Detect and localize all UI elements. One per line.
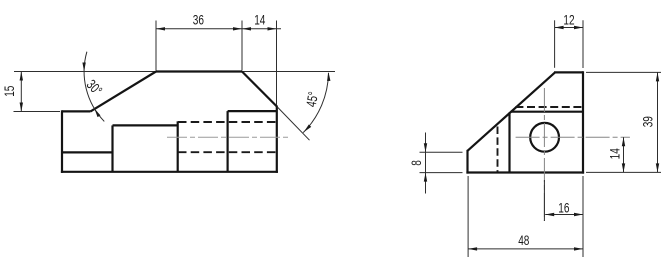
svg-text:15: 15 <box>1 85 17 96</box>
svg-text:14: 14 <box>607 148 623 159</box>
svg-text:16: 16 <box>558 200 569 216</box>
svg-text:48: 48 <box>518 232 529 248</box>
svg-text:39: 39 <box>640 116 656 127</box>
svg-text:36: 36 <box>193 12 204 28</box>
svg-text:45°: 45° <box>303 90 321 108</box>
svg-text:14: 14 <box>254 12 265 28</box>
svg-text:12: 12 <box>563 12 574 28</box>
svg-text:8: 8 <box>408 160 424 166</box>
